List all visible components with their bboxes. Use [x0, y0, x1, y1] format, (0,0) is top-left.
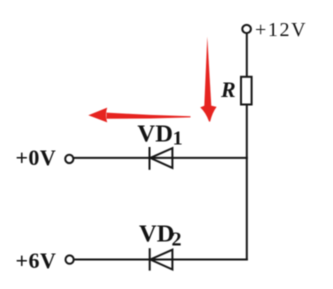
svg-text:2: 2 [172, 229, 182, 251]
svg-text:R: R [220, 77, 236, 102]
svg-text:VD: VD [137, 121, 173, 148]
svg-text:+6V: +6V [16, 248, 57, 273]
svg-text:1: 1 [173, 128, 183, 150]
svg-text:+0V: +0V [16, 145, 57, 170]
svg-text:+12V: +12V [255, 19, 307, 41]
svg-text:VD: VD [139, 220, 174, 247]
